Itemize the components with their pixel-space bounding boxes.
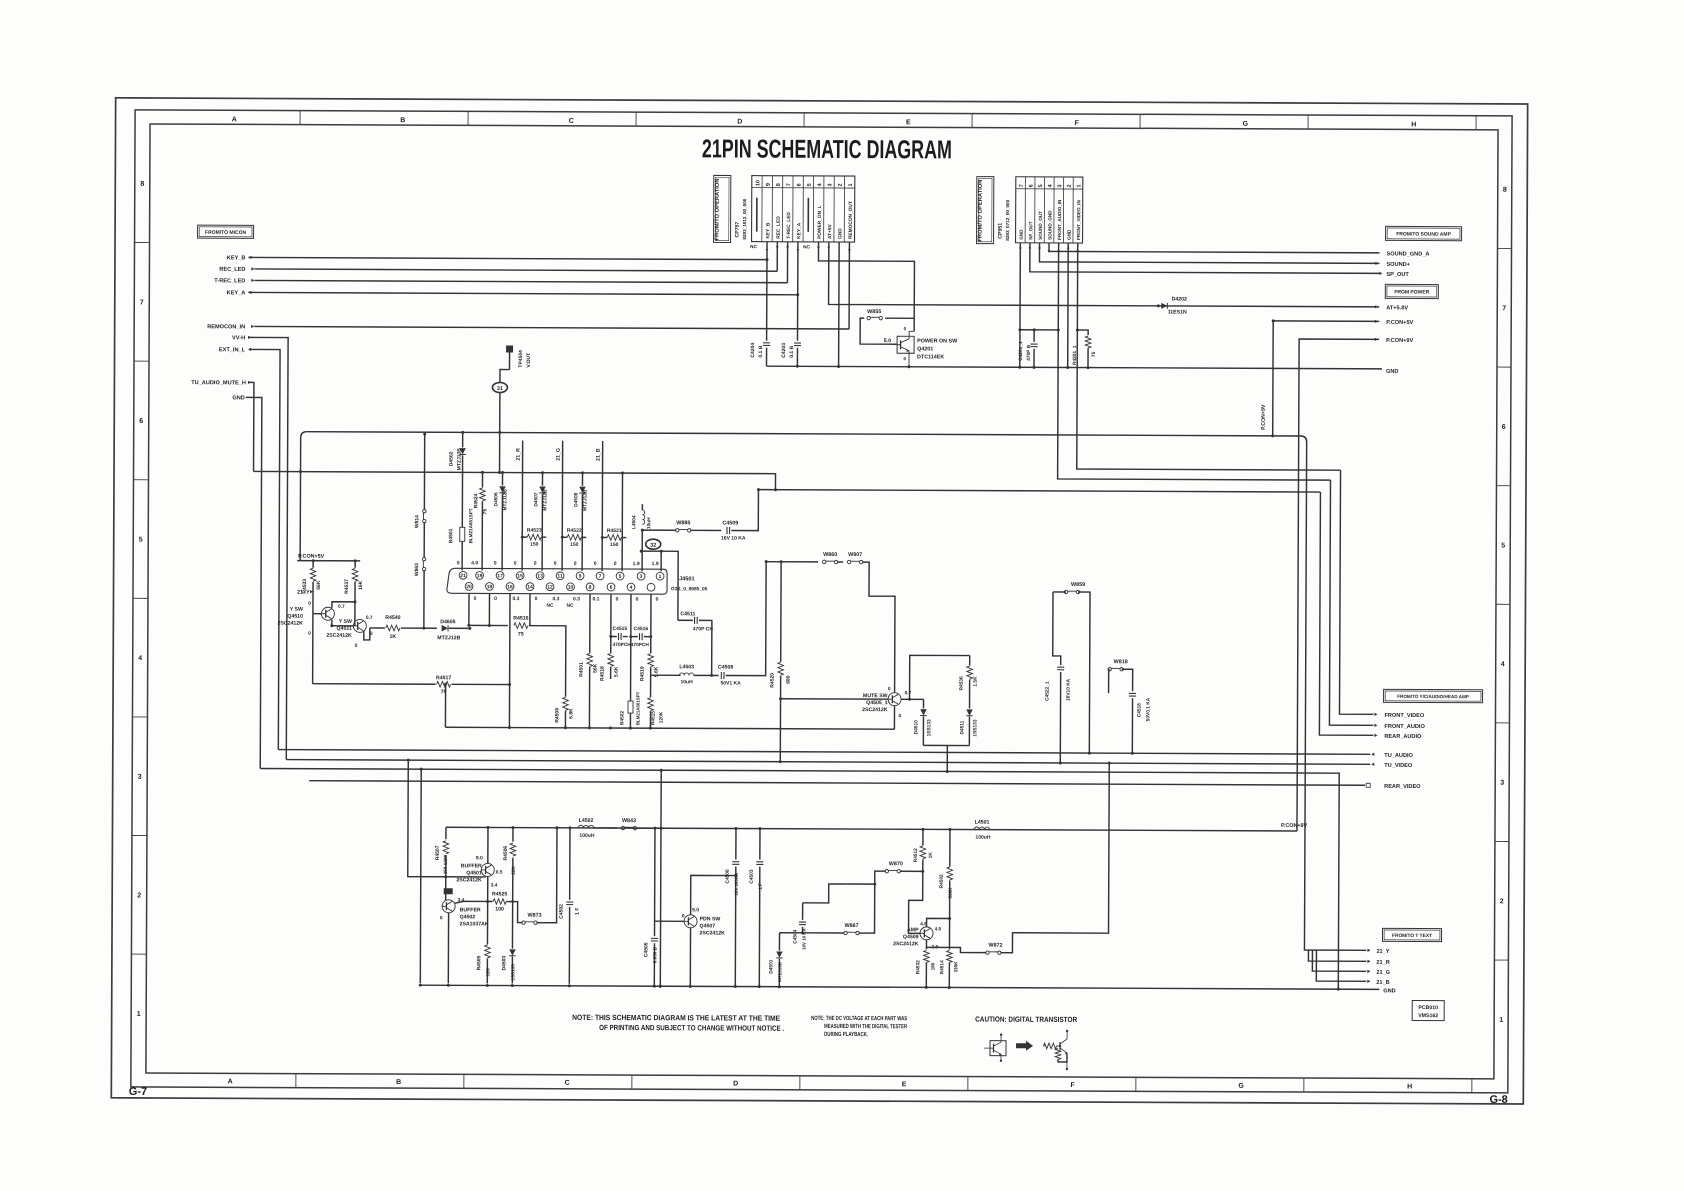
wire P.CON+9V bbox=[1297, 339, 1379, 831]
J4501 pin 2 bbox=[647, 583, 655, 591]
svg-text:C4502: C4502 bbox=[559, 904, 565, 919]
svg-text:FRONT_AUDIO: FRONT_AUDIO bbox=[1384, 724, 1425, 730]
wire pin2 drop R4519 bbox=[650, 594, 652, 653]
svg-text:9: 9 bbox=[766, 183, 772, 186]
svg-text:BLM21A601SPT: BLM21A601SPT bbox=[468, 508, 473, 543]
wire bus REAR_VIDEO y783 bbox=[309, 781, 1365, 786]
svg-text:P.CON+5V: P.CON+5V bbox=[1386, 320, 1413, 326]
svg-text:470P B: 470P B bbox=[1026, 344, 1032, 360]
diode D4508 MTZJ12B bbox=[581, 473, 583, 486]
svg-text:D4508: D4508 bbox=[573, 492, 579, 506]
capacitor C4201_1 470P B bbox=[1033, 330, 1035, 342]
svg-text:C4504: C4504 bbox=[792, 929, 798, 943]
svg-text:MTZJ12B: MTZJ12B bbox=[437, 635, 460, 641]
svg-text:6: 6 bbox=[1029, 184, 1035, 187]
svg-text:C: C bbox=[569, 118, 574, 125]
diode D4502 MTZJ13B bbox=[462, 432, 464, 447]
svg-text:P.CON+9V: P.CON+9V bbox=[1386, 338, 1413, 344]
svg-text:R4525: R4525 bbox=[492, 891, 507, 897]
svg-text:8283_1012_00_000: 8283_1012_00_000 bbox=[742, 198, 747, 239]
J4501 pin 1 bbox=[656, 572, 664, 580]
wire CP757 pin7 drop bbox=[786, 242, 788, 283]
svg-text:5: 5 bbox=[1501, 542, 1505, 549]
svg-text:1: 1 bbox=[659, 574, 662, 580]
svg-text:FROM POWER: FROM POWER bbox=[1394, 289, 1429, 295]
svg-text:C4505: C4505 bbox=[643, 942, 649, 957]
capacitor C4204 bbox=[766, 260, 768, 341]
svg-text:W867: W867 bbox=[844, 923, 858, 929]
svg-text:21PIN SCHEMATIC DIAGRAM: 21PIN SCHEMATIC DIAGRAM bbox=[702, 133, 952, 164]
svg-text:2SC2412K: 2SC2412K bbox=[277, 621, 303, 627]
svg-text:150: 150 bbox=[570, 542, 579, 548]
svg-text:W814: W814 bbox=[414, 515, 420, 528]
svg-text:REAR_VIDEO: REAR_VIDEO bbox=[1384, 784, 1421, 790]
wire bus TU_VIDEO y762 bbox=[286, 760, 1370, 765]
resistor R4502 560K bbox=[948, 828, 951, 831]
svg-text:MTZJ12B: MTZJ12B bbox=[542, 489, 548, 511]
wire CP757 pin6 drop bbox=[797, 242, 799, 295]
svg-text:R4516: R4516 bbox=[513, 616, 528, 622]
svg-text:D4507: D4507 bbox=[533, 492, 539, 506]
caution equivalent circuit transistor bbox=[1057, 1045, 1061, 1047]
svg-text:21: 21 bbox=[460, 573, 466, 579]
wire Q4501 collector bbox=[487, 827, 489, 863]
wire GND micon to gnd bus bbox=[244, 397, 262, 768]
svg-text:16V 10 KA: 16V 10 KA bbox=[721, 535, 746, 541]
column tick marks bottom band bbox=[295, 1074, 297, 1088]
svg-text:8: 8 bbox=[776, 183, 782, 186]
transistor Q4511 Y SW bbox=[353, 619, 366, 632]
svg-text:21_R: 21_R bbox=[516, 448, 522, 461]
svg-text:5: 5 bbox=[1038, 184, 1044, 187]
svg-text:8283_0712_00_000: 8283_0712_00_000 bbox=[1005, 199, 1010, 240]
svg-text:L4501: L4501 bbox=[975, 820, 990, 826]
svg-text:75: 75 bbox=[482, 509, 488, 515]
svg-text:GND: GND bbox=[1383, 988, 1395, 994]
svg-text:L4504: L4504 bbox=[631, 515, 637, 529]
svg-text:6: 6 bbox=[1502, 424, 1506, 431]
border band outer rect bbox=[131, 110, 1512, 1093]
J4501 pin 17 bbox=[496, 572, 504, 580]
wire REC_LED bbox=[254, 269, 777, 271]
svg-text:0: 0 bbox=[616, 597, 619, 603]
svg-text:7: 7 bbox=[1502, 305, 1506, 312]
wire P.CON+5V vertical feed bbox=[1272, 321, 1275, 436]
J4501 pin 15 bbox=[516, 572, 524, 580]
svg-text:1.5K: 1.5K bbox=[973, 676, 979, 687]
svg-text:W818: W818 bbox=[1114, 659, 1128, 665]
svg-text:CP757: CP757 bbox=[735, 222, 741, 238]
label box FROM/TO T TEXT bbox=[1382, 928, 1441, 941]
wire pin5 riser bbox=[621, 473, 623, 571]
svg-text:W859: W859 bbox=[1071, 582, 1085, 588]
resistor R4514 330K bbox=[948, 926, 950, 949]
svg-text:NC: NC bbox=[546, 603, 553, 609]
svg-text:MTZJ12B: MTZJ12B bbox=[582, 489, 588, 511]
svg-text:3: 3 bbox=[827, 183, 833, 186]
svg-text:GND: GND bbox=[1386, 369, 1398, 375]
svg-text:5.0: 5.0 bbox=[692, 907, 699, 913]
wire Q4510 collector bbox=[332, 602, 355, 608]
svg-text:150 1/2W: 150 1/2W bbox=[443, 854, 448, 874]
svg-text:21_G: 21_G bbox=[556, 448, 562, 461]
svg-text:W863: W863 bbox=[414, 563, 420, 576]
svg-text:VV-H: VV-H bbox=[232, 335, 245, 341]
svg-text:31: 31 bbox=[497, 386, 503, 392]
capacitor C4504 16V 10 KA bbox=[802, 903, 804, 920]
wire Q4501 emitter down bbox=[487, 876, 489, 901]
connector CP951 body bbox=[1016, 177, 1083, 243]
svg-text:FROM/TO Y/C/AUDIO/HEAD AMP: FROM/TO Y/C/AUDIO/HEAD AMP bbox=[1397, 694, 1469, 699]
svg-text:8: 8 bbox=[589, 585, 592, 591]
svg-text:R4540: R4540 bbox=[385, 615, 400, 621]
resistor R4533 56K bbox=[312, 561, 314, 568]
svg-text:0: 0 bbox=[904, 326, 907, 331]
svg-text:DTC114EK: DTC114EK bbox=[917, 354, 944, 360]
node oval 32 bbox=[646, 539, 661, 549]
svg-text:V.OUT: V.OUT bbox=[526, 353, 532, 368]
svg-text:10uH: 10uH bbox=[680, 679, 693, 685]
svg-text:56K: 56K bbox=[316, 580, 322, 590]
capacitor C4522_1 16V10 KA bbox=[1053, 592, 1061, 665]
CP757 pin arrows bbox=[766, 249, 769, 252]
diode D4511 1SS133 bbox=[969, 705, 971, 709]
inductor L4503 10uH bbox=[651, 674, 681, 676]
svg-text:16V 100KA: 16V 100KA bbox=[734, 872, 739, 896]
diode D4503 1SS133 bbox=[511, 902, 513, 945]
diode D4507 MTZJ12B bbox=[541, 473, 543, 486]
svg-text:SOUND_GND_A: SOUND_GND_A bbox=[1386, 251, 1429, 257]
svg-text:FRONT_VIDEO: FRONT_VIDEO bbox=[1384, 713, 1424, 719]
svg-text:0.3: 0.3 bbox=[573, 596, 580, 602]
svg-text:G-7: G-7 bbox=[129, 1086, 147, 1098]
svg-text:C: C bbox=[565, 1080, 570, 1087]
svg-text:G: G bbox=[1238, 1083, 1244, 1090]
wire FRONT_VIDEO riser bbox=[1339, 470, 1374, 714]
svg-text:TU_AUDIO_MUTE_H: TU_AUDIO_MUTE_H bbox=[191, 380, 246, 386]
wire P.CON+5V local bbox=[297, 560, 360, 562]
svg-text:3: 3 bbox=[138, 774, 142, 781]
svg-text:C4518: C4518 bbox=[1136, 703, 1142, 717]
J4501 pin 11 bbox=[556, 572, 564, 580]
wire KEY_B bbox=[248, 257, 766, 259]
svg-text:C4522_1: C4522_1 bbox=[1045, 681, 1051, 701]
resistor R4201_1 75 bbox=[1077, 330, 1088, 335]
net 21_G wire bbox=[561, 441, 564, 571]
wire CP951 pin4 SOUND_GND_A bbox=[1049, 243, 1380, 253]
svg-text:5: 5 bbox=[619, 574, 622, 580]
svg-text:L4503: L4503 bbox=[679, 664, 694, 670]
wire Q4509 base bbox=[909, 871, 923, 933]
svg-text:0.3: 0.3 bbox=[552, 596, 559, 602]
svg-text:0: 0 bbox=[614, 561, 617, 567]
svg-text:7: 7 bbox=[1019, 184, 1025, 187]
svg-text:R4519: R4519 bbox=[640, 666, 646, 681]
wire 21_Y riser end bbox=[1304, 945, 1366, 950]
wire Q4507 base bbox=[655, 920, 684, 922]
J4501 pin 7 bbox=[596, 572, 604, 580]
J4501 pin 13 bbox=[536, 572, 544, 580]
svg-text:PDN SW: PDN SW bbox=[700, 916, 721, 922]
wire Q4509 emitter bbox=[926, 940, 934, 948]
wire Q4507 collector bbox=[691, 875, 736, 915]
svg-text:W843: W843 bbox=[622, 818, 636, 824]
svg-text:EXT_IN_L: EXT_IN_L bbox=[219, 347, 246, 353]
svg-text:H: H bbox=[1411, 121, 1416, 128]
svg-text:D4506: D4506 bbox=[493, 492, 499, 506]
J4501 pin 16 bbox=[506, 583, 514, 591]
svg-text:0.5: 0.5 bbox=[496, 869, 503, 875]
svg-text:P.CON+9V: P.CON+9V bbox=[1261, 404, 1267, 430]
wire W870 run bbox=[847, 883, 875, 885]
svg-text:4: 4 bbox=[817, 183, 823, 186]
J4501 pin 14 bbox=[526, 583, 534, 591]
svg-text:R4501: R4501 bbox=[579, 662, 585, 677]
ferrite bead B4501 bbox=[460, 527, 465, 541]
wire Q4507 emitter bbox=[689, 928, 691, 986]
J4501 pin 10 bbox=[567, 583, 575, 591]
svg-text:4: 4 bbox=[1048, 184, 1054, 187]
svg-text:4: 4 bbox=[1501, 661, 1505, 668]
caution arrow bbox=[1016, 1041, 1033, 1051]
svg-text:A: A bbox=[232, 116, 237, 123]
svg-text:VMS162: VMS162 bbox=[1418, 1013, 1438, 1019]
svg-text:0: 0 bbox=[898, 713, 901, 719]
svg-text:R4518: R4518 bbox=[600, 666, 606, 681]
svg-text:2SC2412K: 2SC2412K bbox=[893, 941, 919, 947]
svg-text:FROM/TO OPERATION: FROM/TO OPERATION bbox=[715, 178, 721, 240]
svg-text:D: D bbox=[733, 1081, 738, 1088]
svg-text:D4502: D4502 bbox=[449, 451, 455, 466]
svg-text:R4502: R4502 bbox=[939, 874, 945, 888]
svg-text:B4501: B4501 bbox=[448, 528, 454, 543]
wire CP757 pin9 KEY_B drop bbox=[766, 242, 768, 260]
svg-text:21_B: 21_B bbox=[1376, 980, 1389, 986]
junction KEY_B / C4204 bbox=[765, 258, 768, 261]
wire 21_B spur bbox=[1316, 950, 1366, 981]
svg-text:TU_VIDEO: TU_VIDEO bbox=[1384, 763, 1413, 769]
wire pin1 stub bbox=[661, 551, 678, 620]
svg-text:50V0.1 KA: 50V0.1 KA bbox=[1145, 697, 1151, 721]
svg-text:PCB010: PCB010 bbox=[1418, 1005, 1438, 1011]
svg-text:32: 32 bbox=[650, 543, 656, 549]
svg-text:W907: W907 bbox=[848, 552, 862, 558]
transistor Q4507 PDN SW bbox=[684, 915, 697, 928]
resistor R4515 120K bbox=[650, 675, 652, 697]
svg-text:R4506: R4506 bbox=[503, 846, 509, 861]
svg-text:1: 1 bbox=[137, 1011, 141, 1018]
wire mute base bbox=[781, 698, 888, 700]
svg-text:10: 10 bbox=[755, 180, 761, 186]
wire rail y729 bbox=[445, 727, 894, 729]
svg-text:R4515: R4515 bbox=[650, 711, 656, 725]
svg-text:G3S_0_9985_05: G3S_0_9985_05 bbox=[671, 586, 708, 592]
resistor R4519 5.6K bbox=[648, 654, 654, 667]
wire rail y474 bbox=[253, 471, 775, 489]
svg-text:SOUND_GND: SOUND_GND bbox=[1047, 210, 1052, 240]
border outer frame bbox=[111, 98, 1527, 1104]
svg-text:16: 16 bbox=[507, 584, 513, 590]
wire GND bottom rail bbox=[420, 985, 1379, 989]
svg-text:CAUTION: DIGITAL TRANSISTOR: CAUTION: DIGITAL TRANSISTOR bbox=[975, 1015, 1078, 1024]
wire CP757 pin3 AT+5V drop bbox=[829, 242, 1380, 307]
svg-text:56K: 56K bbox=[593, 663, 599, 673]
wire mute collector staircase bbox=[862, 562, 896, 692]
J4501 pin 19 bbox=[476, 572, 484, 580]
svg-text:4.0: 4.0 bbox=[471, 560, 478, 566]
svg-text:GND: GND bbox=[1067, 229, 1072, 240]
junction KEY_A / C4203 bbox=[796, 293, 799, 296]
svg-text:4: 4 bbox=[138, 655, 142, 662]
svg-text:12: 12 bbox=[547, 585, 553, 591]
svg-text:12K: 12K bbox=[485, 967, 490, 976]
caution digital transistor boxed symbol bbox=[990, 1041, 1006, 1056]
wire riser x422 to bottom rail bbox=[419, 769, 422, 983]
svg-text:5.0: 5.0 bbox=[884, 338, 892, 344]
svg-text:R4505: R4505 bbox=[476, 955, 482, 970]
capacitor C4518 50V0.1 KA bbox=[1129, 692, 1136, 694]
svg-text:BLM21A601SPT: BLM21A601SPT bbox=[635, 691, 640, 725]
svg-text:R4524: R4524 bbox=[473, 493, 479, 508]
svg-text:0: 0 bbox=[457, 560, 460, 566]
svg-text:R4508: R4508 bbox=[554, 708, 560, 723]
svg-text:D4511: D4511 bbox=[959, 720, 965, 734]
svg-text:21_Y: 21_Y bbox=[1376, 949, 1389, 955]
svg-text:5: 5 bbox=[807, 183, 813, 186]
svg-text:1K: 1K bbox=[928, 852, 934, 859]
svg-text:P.CON+9V: P.CON+9V bbox=[1281, 823, 1308, 829]
svg-text:1: 1 bbox=[1499, 1017, 1503, 1024]
svg-text:W860: W860 bbox=[823, 552, 837, 558]
svg-text:0.3: 0.3 bbox=[512, 596, 519, 602]
border band inner rect bbox=[146, 124, 1498, 1079]
svg-text:4: 4 bbox=[630, 585, 633, 591]
transistor Q4502 BUFFER PNP bbox=[442, 900, 455, 913]
svg-text:0: 0 bbox=[636, 597, 639, 603]
svg-text:0: 0 bbox=[474, 596, 477, 602]
wire pin8 drop R4501 bbox=[589, 594, 591, 653]
wire pin14 drop bbox=[529, 594, 531, 626]
svg-text:C4515: C4515 bbox=[612, 626, 627, 632]
svg-text:0: 0 bbox=[308, 631, 311, 637]
wire EXT_IN_L to TU_AUDIO bus bbox=[249, 349, 280, 749]
svg-text:G: G bbox=[1243, 121, 1249, 128]
svg-text:POWER ON SW: POWER ON SW bbox=[917, 338, 958, 344]
svg-text:0: 0 bbox=[440, 915, 443, 921]
svg-text:FRONT_VIDEO_IN: FRONT_VIDEO_IN bbox=[1076, 200, 1081, 241]
resistor R4507 150 1/2W bbox=[445, 827, 447, 839]
junction C4201_1 top bbox=[1020, 329, 1058, 331]
svg-text:0: 0 bbox=[594, 561, 597, 567]
wire Q4501 base feed bbox=[446, 876, 486, 878]
svg-text:W872: W872 bbox=[988, 943, 1002, 949]
wire base Q4502 node bbox=[455, 901, 488, 903]
svg-text:3: 3 bbox=[1500, 780, 1504, 787]
svg-text:NC: NC bbox=[750, 244, 757, 249]
J4501 pin 4 bbox=[627, 583, 635, 591]
svg-text:AT+5.8V: AT+5.8V bbox=[1386, 305, 1408, 311]
wire Q4511 emitter down bbox=[364, 628, 370, 640]
svg-text:C4503: C4503 bbox=[749, 869, 755, 883]
svg-text:560K: 560K bbox=[948, 887, 953, 899]
wire TU_AUDIO_MUTE_H down to rail bbox=[249, 382, 254, 471]
svg-text:C4204: C4204 bbox=[750, 343, 756, 358]
resistor R4512 1K bbox=[921, 828, 924, 831]
wire Q4511 base link bbox=[337, 625, 353, 627]
svg-text:16K: 16K bbox=[358, 580, 364, 590]
J4501 pin 6 bbox=[607, 583, 615, 591]
wire pin20 drop bbox=[468, 593, 470, 625]
svg-text:Y SW: Y SW bbox=[339, 619, 352, 625]
svg-text:NC: NC bbox=[803, 244, 810, 249]
svg-text:3.4: 3.4 bbox=[491, 882, 498, 888]
svg-text:6: 6 bbox=[139, 418, 143, 425]
capacitor C4505 0.056 B bbox=[654, 921, 656, 936]
svg-text:7: 7 bbox=[140, 299, 144, 306]
svg-text:13: 13 bbox=[537, 573, 543, 579]
svg-text:Y SW: Y SW bbox=[290, 607, 303, 613]
svg-text:14: 14 bbox=[527, 584, 533, 590]
svg-text:MEASURED WITH THE DIGITAL TEST: MEASURED WITH THE DIGITAL TESTER bbox=[824, 1024, 907, 1030]
svg-text:T-REC_LED: T-REC_LED bbox=[214, 278, 245, 284]
svg-text:C4509: C4509 bbox=[722, 520, 738, 526]
capacitor C4502 1 F bbox=[569, 828, 571, 900]
svg-text:1.9: 1.9 bbox=[633, 561, 640, 567]
label box FROM/TO Y/C/AUDIO/HEAD AMP bbox=[1384, 689, 1483, 702]
svg-text:Q4501: Q4501 bbox=[466, 870, 482, 876]
svg-text:2: 2 bbox=[1500, 898, 1504, 905]
svg-text:C4508: C4508 bbox=[718, 664, 733, 670]
svg-text:MUTE SW: MUTE SW bbox=[863, 693, 888, 699]
svg-text:50V1 KA: 50V1 KA bbox=[720, 680, 741, 686]
wire gnd riser x662 bbox=[659, 770, 662, 986]
resistor R4536 1.5K bbox=[910, 655, 970, 699]
svg-text:470P CH: 470P CH bbox=[693, 626, 714, 632]
wire T-REC_LED bbox=[254, 280, 787, 282]
wire 21_R spur bbox=[1308, 950, 1366, 961]
svg-text:1SS133: 1SS133 bbox=[510, 964, 515, 981]
J4501 pin 21 bbox=[459, 571, 467, 579]
svg-text:1: 1 bbox=[848, 184, 854, 187]
svg-text:E: E bbox=[902, 1081, 907, 1088]
svg-text:0: 0 bbox=[514, 561, 517, 567]
svg-text:KEY_A: KEY_A bbox=[227, 290, 246, 296]
wire bottom rail y829 bbox=[446, 827, 1297, 831]
test point TP4504 V.OUT bbox=[506, 346, 513, 353]
svg-text:G-8: G-8 bbox=[1489, 1094, 1507, 1106]
svg-text:C4516: C4516 bbox=[633, 626, 648, 632]
svg-text:REMOCON_OUT: REMOCON_OUT bbox=[848, 201, 854, 239]
wire CP757 pin8 drop bbox=[776, 242, 778, 271]
wire C4504 staircase top bbox=[803, 884, 847, 903]
svg-text:1 F: 1 F bbox=[758, 883, 763, 890]
wire VV-H to TU_VIDEO bus bbox=[246, 337, 288, 759]
J4501 pin 5 bbox=[616, 572, 624, 580]
wire W843 to gnd riser bbox=[636, 827, 661, 829]
wire pin18 drop bbox=[488, 593, 490, 625]
svg-text:5: 5 bbox=[139, 537, 143, 544]
svg-text:B4502: B4502 bbox=[619, 711, 625, 725]
capacitor C4503 1 F bbox=[759, 829, 761, 860]
svg-text:D4501: D4501 bbox=[768, 959, 774, 973]
wire CP951 pin2 GND drop bbox=[1067, 243, 1070, 367]
svg-text:R4536: R4536 bbox=[959, 676, 965, 690]
svg-text:C4511: C4511 bbox=[680, 611, 695, 617]
svg-text:DURING PLAYBACK.: DURING PLAYBACK. bbox=[824, 1032, 868, 1038]
svg-text:T-REC_LED: T-REC_LED bbox=[786, 212, 792, 239]
wire CP951 pin7 GND drop bbox=[1019, 243, 1022, 367]
svg-text:7: 7 bbox=[786, 183, 792, 186]
